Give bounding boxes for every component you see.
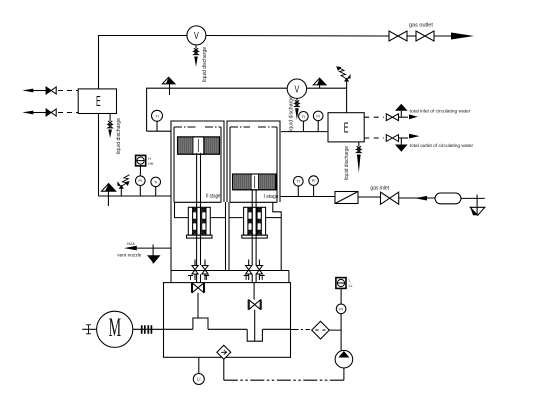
svg-text:total outlet of circulating wa: total outlet of circulating water bbox=[410, 143, 474, 149]
svg-text:PI: PI bbox=[339, 306, 343, 311]
svg-text:gas inlet: gas inlet bbox=[370, 186, 389, 192]
svg-text:liquid discharge: liquid discharge bbox=[289, 96, 295, 132]
svg-text:TI: TI bbox=[297, 180, 300, 184]
svg-text:M: M bbox=[109, 313, 121, 343]
svg-text:L: L bbox=[349, 279, 351, 283]
svg-text:H: H bbox=[148, 157, 151, 161]
svg-text:vent nozzle: vent nozzle bbox=[117, 253, 142, 259]
svg-text:liquid discharge: liquid discharge bbox=[202, 47, 208, 82]
svg-text:total inlet of circulating wat: total inlet of circulating water bbox=[410, 109, 471, 115]
svg-text:TI: TI bbox=[154, 180, 157, 184]
svg-text:PI: PI bbox=[139, 179, 143, 183]
svg-text:E: E bbox=[344, 120, 349, 137]
svg-text:V: V bbox=[194, 30, 199, 41]
svg-text:liquid discharge: liquid discharge bbox=[116, 118, 122, 154]
svg-text:TI: TI bbox=[155, 114, 158, 118]
svg-text:V: V bbox=[294, 83, 299, 94]
svg-text:II stage: II stage bbox=[206, 193, 221, 199]
svg-text:TI: TI bbox=[302, 115, 305, 119]
svg-text:liquid discharge: liquid discharge bbox=[344, 146, 350, 180]
svg-text:I stage: I stage bbox=[264, 194, 279, 200]
svg-text:LL: LL bbox=[349, 284, 353, 288]
svg-text:LI: LI bbox=[197, 377, 201, 382]
svg-text:HH: HH bbox=[148, 162, 154, 166]
svg-text:PI: PI bbox=[316, 114, 320, 118]
svg-text:E: E bbox=[96, 93, 101, 110]
svg-text:PI: PI bbox=[312, 179, 316, 183]
svg-text:gas outlet: gas outlet bbox=[409, 23, 433, 29]
svg-text:N2A: N2A bbox=[127, 241, 135, 246]
